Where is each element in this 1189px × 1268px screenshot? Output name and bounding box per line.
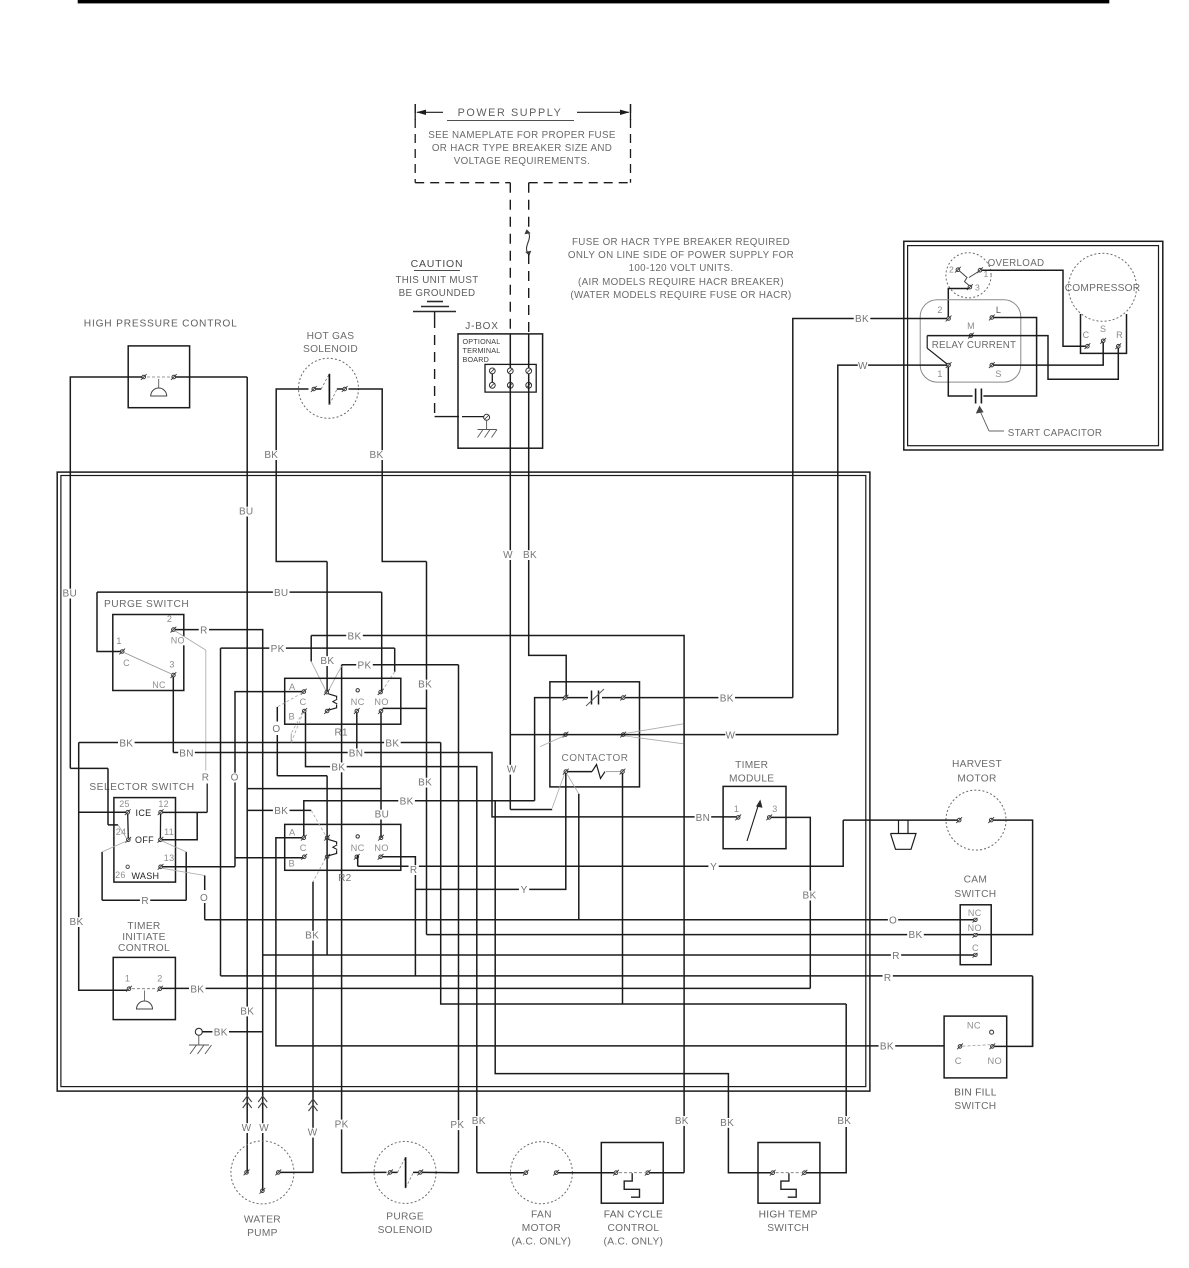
wire BK 426 drop — [427, 562, 974, 935]
R2 pin NO — [374, 835, 389, 860]
wire BK from j-box — [529, 472, 567, 697]
contactor mid contacts — [563, 732, 627, 738]
label BK armature drop — [319, 656, 336, 667]
wire BU bus — [97, 592, 382, 692]
svg-text:R: R — [1116, 330, 1123, 340]
cam pin C — [971, 943, 981, 958]
label START CAPACITOR — [1008, 428, 1103, 439]
bin fill pin C — [955, 1044, 963, 1067]
svg-text:100-120 VOLT UNITS.: 100-120 VOLT UNITS. — [629, 263, 734, 274]
wire relay L to capacitor — [983, 318, 1036, 397]
svg-text:BK: BK — [385, 738, 399, 749]
svg-text:BK: BK — [348, 632, 362, 643]
label OVERLOAD — [988, 258, 1045, 269]
svg-text:PURGE: PURGE — [386, 1212, 424, 1223]
leader W to coil — [552, 775, 564, 809]
svg-text:11: 11 — [164, 827, 174, 837]
svg-text:BN: BN — [696, 813, 711, 824]
wire hpc-left to pin24 — [70, 768, 126, 838]
svg-text:W: W — [242, 1123, 252, 1134]
wire R2 NC up — [357, 855, 359, 866]
wire PK to purge sol left — [329, 665, 342, 1173]
label PK row 665 — [356, 661, 373, 672]
svg-text:C: C — [123, 658, 130, 668]
label Y harvest — [708, 862, 718, 873]
label BN timer — [695, 813, 712, 824]
svg-text:MOTOR: MOTOR — [957, 774, 996, 785]
svg-text:CAUTION: CAUTION — [411, 258, 464, 270]
selector pin 11 — [158, 827, 175, 843]
label BK hot gas left — [263, 450, 280, 461]
wire purge sol left — [342, 1171, 387, 1173]
label BK fan — [470, 1116, 487, 1127]
leader contactor mid-right b — [625, 736, 684, 744]
harvest motor circle — [946, 790, 1006, 850]
purge pin 1 — [116, 636, 130, 668]
svg-text:TIMER: TIMER — [735, 760, 768, 771]
wire tic2 to timer module — [162, 987, 810, 989]
label PURGE SOLENOID — [378, 1212, 433, 1237]
wire PK row 665 — [342, 664, 459, 666]
label BK hightemp — [719, 1118, 736, 1129]
svg-text:R: R — [141, 896, 149, 907]
svg-text:R: R — [202, 773, 210, 784]
cam pin NO — [967, 923, 982, 938]
label PK1 — [333, 1119, 350, 1130]
svg-text:OFF: OFF — [135, 835, 154, 845]
label TIMER MODULE — [729, 760, 774, 785]
R2 armature contacts — [324, 835, 330, 860]
R1 pin C — [299, 697, 307, 714]
wire overload1 to compressor C — [982, 270, 1086, 346]
svg-text:M: M — [967, 321, 975, 331]
svg-text:FAN: FAN — [531, 1210, 552, 1221]
svg-text:OR HACR TYPE BREAKER SIZE AND: OR HACR TYPE BREAKER SIZE AND — [432, 143, 612, 154]
svg-text:NC: NC — [968, 908, 982, 918]
svg-text:PK: PK — [358, 661, 372, 672]
svg-text:S: S — [1100, 324, 1106, 334]
bin fill switch box — [944, 1016, 1007, 1078]
label FAN MOTOR — [512, 1210, 572, 1248]
wire hot gas left — [276, 389, 327, 562]
compressor unit outer box — [904, 241, 1163, 450]
fan cycle thermostat — [624, 1173, 639, 1197]
wire BK to R2 armature — [247, 809, 311, 811]
compressor circle — [1069, 253, 1137, 321]
R1 pin NC — [351, 689, 365, 714]
R1 pin NO — [374, 689, 389, 714]
svg-text:(WATER MODELS REQUIRE FUSE OR: (WATER MODELS REQUIRE FUSE OR HACR) — [570, 290, 791, 301]
label W3 — [307, 1128, 317, 1139]
svg-text:NO: NO — [988, 1056, 1003, 1066]
R1 armature — [328, 694, 337, 710]
label BK hpc drop — [239, 1006, 256, 1017]
purge blade — [124, 653, 172, 675]
label BK 743b — [384, 738, 401, 749]
svg-text:SWITCH: SWITCH — [954, 1101, 996, 1112]
relay pin 1 — [937, 362, 951, 379]
svg-text:WATER: WATER — [244, 1215, 281, 1226]
relay pin 2 — [937, 305, 951, 321]
svg-text:RELAY CURRENT: RELAY CURRENT — [932, 340, 1016, 351]
label BN b — [348, 748, 365, 759]
svg-text:S: S — [995, 369, 1001, 379]
hot gas solenoid circle — [299, 358, 359, 418]
wire L2 through j-box — [528, 334, 530, 472]
wire O from R1 A — [277, 707, 327, 955]
tic pin 2 — [157, 974, 163, 992]
svg-text:HIGH PRESSURE CONTROL: HIGH PRESSURE CONTROL — [84, 319, 238, 330]
relay armature — [927, 336, 947, 364]
relay pin S — [989, 362, 1002, 379]
svg-text:OPTIONAL: OPTIONAL — [463, 337, 501, 346]
wire R1 A left — [235, 692, 303, 867]
compressor unit inner box — [908, 246, 1159, 446]
relay R1 box — [285, 678, 401, 724]
cam pin NC — [967, 908, 982, 923]
svg-text:2: 2 — [167, 614, 172, 624]
svg-text:VOLTAGE REQUIREMENTS.: VOLTAGE REQUIREMENTS. — [454, 156, 591, 167]
wire contactor top left — [535, 698, 564, 801]
leader contactor mid-right a — [625, 724, 684, 734]
contactor top contact symbol — [568, 689, 622, 706]
terminal jumper — [491, 374, 493, 383]
svg-text:BK: BK — [331, 762, 345, 773]
svg-text:R: R — [410, 865, 418, 876]
svg-text:BN: BN — [349, 748, 364, 759]
wire R2 NO right — [221, 857, 1033, 1047]
svg-text:CONTROL: CONTROL — [607, 1223, 659, 1234]
label PK2 — [449, 1120, 466, 1131]
svg-text:12: 12 — [158, 799, 169, 809]
svg-text:R2: R2 — [338, 873, 352, 884]
power supply dimension arrows — [415, 104, 630, 120]
svg-text:BK: BK — [305, 931, 319, 942]
fan motor pins — [523, 1170, 559, 1176]
svg-text:BK: BK — [909, 930, 923, 941]
svg-text:BU: BU — [274, 588, 289, 599]
svg-text:BK: BK — [264, 450, 278, 461]
wire dashed ground to j-box — [435, 318, 459, 417]
label BK contactor — [718, 693, 735, 704]
R2 armature — [328, 839, 337, 855]
wire BN row — [173, 753, 736, 817]
purge solenoid coil — [387, 1157, 423, 1188]
svg-text:L: L — [996, 305, 1001, 315]
purge pin 2 — [167, 614, 186, 646]
svg-text:BOARD: BOARD — [463, 355, 490, 364]
wire contactor top to BK feed — [625, 697, 793, 699]
leader BK to R2 armature — [311, 810, 326, 836]
label BK cam — [907, 930, 924, 941]
fan cycle control box — [601, 1143, 663, 1204]
svg-text:SEE NAMEPLATE FOR PROPER FUSE: SEE NAMEPLATE FOR PROPER FUSE — [428, 130, 616, 141]
svg-text:SOLENOID: SOLENOID — [378, 1225, 433, 1236]
svg-text:26: 26 — [115, 870, 126, 880]
label WASH — [131, 871, 159, 881]
label J-BOX — [465, 321, 498, 332]
compressor terminal bracket — [1081, 314, 1127, 353]
relay pin M — [967, 321, 975, 339]
wire hot gas right — [349, 389, 427, 562]
wire BK branch 788 — [247, 788, 381, 790]
label W compressor feed — [858, 361, 868, 372]
wire pin13 right — [163, 866, 236, 868]
svg-text:BK: BK — [190, 984, 204, 995]
contactor top contacts — [563, 695, 627, 701]
wire BK compressor feed — [793, 319, 947, 698]
svg-text:NO: NO — [171, 636, 185, 646]
wire BK left drop — [79, 743, 128, 991]
chevron W3 — [309, 1099, 318, 1111]
wire W from j-box — [509, 472, 511, 734]
svg-text:CAM: CAM — [964, 875, 988, 886]
wire Y harvest row — [358, 820, 844, 866]
wire water pump right — [280, 1171, 313, 1173]
wire R2 arm to water pump — [312, 882, 314, 1173]
label W drop — [507, 765, 517, 776]
fuse break symbol — [525, 229, 532, 255]
cam switch box — [960, 905, 991, 965]
svg-text:C: C — [299, 697, 306, 707]
hot gas coil — [311, 374, 348, 405]
wire BK row 743 — [79, 742, 441, 744]
svg-text:BK: BK — [214, 1028, 228, 1039]
label CAUTION — [410, 258, 464, 271]
svg-text:CONTACTOR: CONTACTOR — [562, 753, 629, 764]
selector box — [114, 798, 176, 883]
label TIMER INITIATE CONTROL — [118, 921, 170, 954]
label BK hightemp2 — [836, 1116, 853, 1127]
wire PK drop 220 — [220, 648, 222, 976]
svg-text:PK: PK — [271, 644, 285, 655]
selector pin 12 — [158, 799, 169, 815]
wire R1 C to fan feeder — [306, 713, 477, 1173]
purge pin 3 — [152, 660, 176, 691]
svg-text:WASH: WASH — [131, 871, 159, 881]
label BU R1R2 — [374, 810, 391, 821]
label O cam — [888, 915, 898, 926]
wire L2 dashed upper — [528, 183, 530, 228]
svg-text:START CAPACITOR: START CAPACITOR — [1008, 428, 1103, 439]
svg-text:NO: NO — [374, 843, 389, 853]
contactor box — [550, 682, 640, 787]
svg-text:BU: BU — [375, 810, 390, 821]
wire R1 C drop — [290, 733, 292, 742]
wire PK to purge sol right — [458, 665, 460, 1173]
label WATER PUMP — [244, 1215, 281, 1240]
wire BK 743 drop 440 — [441, 743, 847, 1005]
svg-text:W: W — [507, 765, 517, 776]
label R R2NO — [409, 865, 419, 876]
svg-text:BK: BK — [855, 314, 869, 325]
label R1 B — [289, 712, 296, 722]
label R binfill — [883, 973, 893, 984]
terminal screws — [489, 368, 531, 388]
svg-text:POWER SUPPLY: POWER SUPPLY — [458, 107, 563, 119]
power supply note text — [428, 130, 616, 167]
wire L2 dashed lower — [528, 254, 530, 334]
earth ground symbol — [413, 302, 456, 319]
hpc contacts — [141, 374, 177, 380]
svg-text:W: W — [858, 361, 868, 372]
R2 pin A — [289, 828, 307, 841]
main enclosure inner — [61, 476, 866, 1087]
label BK tic2 — [189, 984, 206, 995]
svg-text:3: 3 — [169, 660, 174, 670]
label BK left drop — [68, 917, 85, 928]
label R drop — [200, 773, 210, 784]
svg-text:R: R — [892, 951, 900, 962]
label BN a — [178, 748, 195, 759]
svg-text:A: A — [289, 828, 296, 838]
leader R1 A — [277, 693, 302, 707]
svg-text:BIN FILL: BIN FILL — [954, 1088, 997, 1099]
fan motor circle — [510, 1142, 572, 1204]
harvest cam symbol — [891, 820, 917, 849]
svg-text:BK: BK — [370, 450, 384, 461]
wire high temp feeder — [495, 801, 771, 1173]
svg-text:BK: BK — [720, 1118, 734, 1129]
compressor pin R — [1115, 330, 1123, 349]
label R2 — [338, 873, 352, 884]
svg-text:R1: R1 — [335, 728, 349, 739]
svg-text:A: A — [289, 682, 296, 692]
svg-text:BK: BK — [119, 738, 133, 749]
label BK fan feeder — [330, 762, 347, 773]
label BIN FILL SWITCH — [954, 1088, 997, 1113]
harvest pins — [956, 817, 994, 823]
svg-text:Y: Y — [521, 885, 528, 896]
wire overload3 to relay2 — [948, 289, 968, 318]
svg-text:3: 3 — [772, 804, 777, 814]
label O 235 — [230, 773, 240, 784]
svg-text:CONTROL: CONTROL — [118, 943, 170, 954]
svg-text:2: 2 — [937, 305, 942, 315]
wire purge1 to BU — [97, 592, 121, 651]
wire purge sol right — [422, 1171, 458, 1173]
label W feed — [503, 550, 513, 561]
ground terminal circle — [195, 1028, 202, 1035]
wire ground to R wire — [202, 1031, 262, 1033]
power supply dashed box — [415, 104, 630, 183]
svg-text:R: R — [884, 973, 892, 984]
svg-text:O: O — [889, 915, 897, 926]
wire PK row 648 — [221, 647, 395, 649]
chevron W2 — [258, 1096, 267, 1108]
wire coil left drop — [415, 773, 565, 889]
label BU hpc drop — [62, 589, 79, 600]
j-box ground terminal — [462, 414, 490, 420]
svg-text:C: C — [972, 943, 979, 953]
wire W compressor feed — [838, 365, 947, 734]
label HARVEST MOTOR — [952, 759, 1002, 785]
svg-text:BK: BK — [880, 1042, 894, 1053]
svg-text:Y: Y — [710, 862, 717, 873]
contactor coil pins — [563, 769, 626, 775]
wire R1 NO down to R2 — [380, 713, 382, 838]
wire harvest left — [843, 819, 957, 821]
overload element — [960, 271, 979, 286]
label HIGH PRESSURE CONTROL — [84, 319, 238, 330]
svg-text:3: 3 — [975, 283, 980, 293]
hpc pressure dome — [151, 379, 167, 396]
svg-text:BK: BK — [675, 1116, 689, 1127]
svg-text:2: 2 — [157, 974, 162, 984]
wire L1 dashed from power supply — [509, 183, 511, 334]
R2 pin NC — [351, 835, 365, 860]
svg-text:OVERLOAD: OVERLOAD — [988, 258, 1045, 269]
label R1 — [335, 728, 349, 739]
svg-text:PK: PK — [450, 1120, 464, 1131]
svg-text:BK: BK — [274, 806, 288, 817]
label BK 743a — [118, 738, 135, 749]
svg-text:ONLY ON LINE SIDE OF POWER SUP: ONLY ON LINE SIDE OF POWER SUPPLY FOR — [568, 250, 794, 261]
svg-text:BK: BK — [320, 656, 334, 667]
label POWER SUPPLY — [447, 107, 574, 121]
overload protector circle — [946, 253, 991, 298]
wire fan motor right — [558, 1172, 614, 1174]
wire purge2 R right — [175, 630, 263, 1191]
overload pin 1 — [977, 267, 988, 279]
start capacitor — [976, 389, 982, 404]
label CONTACTOR — [562, 753, 629, 764]
label R purge2 — [199, 626, 209, 637]
label BK timer3 — [801, 891, 818, 902]
fuse note text — [568, 237, 794, 301]
svg-text:O: O — [200, 893, 208, 904]
label R cam — [891, 951, 901, 962]
start capacitor leader — [976, 406, 1004, 432]
svg-text:1: 1 — [116, 636, 121, 646]
svg-text:(AIR MODELS REQUIRE HACR BREAK: (AIR MODELS REQUIRE HACR BREAKER) — [578, 277, 784, 288]
label BK ground — [212, 1028, 229, 1039]
high temp thermostat — [781, 1173, 796, 1197]
svg-text:W: W — [503, 550, 513, 561]
svg-text:FUSE OR HACR TYPE BREAKER REQU: FUSE OR HACR TYPE BREAKER REQUIRED — [572, 237, 790, 248]
wire BK armature drop — [326, 562, 328, 693]
purge solenoid circle — [374, 1141, 436, 1203]
label OFF — [135, 835, 154, 845]
wire timer3 to TIC — [771, 817, 810, 988]
leader coil to 578 — [567, 775, 579, 794]
wire BK to bin fill C — [276, 838, 944, 1046]
svg-text:W: W — [259, 1123, 269, 1134]
svg-text:TIMER: TIMER — [127, 921, 160, 932]
wire hpc right drop — [246, 377, 248, 1173]
svg-text:HOT GAS: HOT GAS — [307, 331, 355, 342]
label BK hot gas right — [368, 450, 385, 461]
svg-text:ICE: ICE — [136, 808, 152, 818]
svg-text:PUMP: PUMP — [247, 1228, 278, 1239]
wire L1 through j-box — [509, 334, 511, 472]
svg-text:(A.C. ONLY): (A.C. ONLY) — [604, 1237, 664, 1248]
svg-text:TERMINAL: TERMINAL — [463, 346, 501, 355]
leader PK to R1 NO — [382, 672, 394, 691]
label SELECTOR SWITCH — [89, 782, 194, 793]
svg-text:O: O — [231, 773, 239, 784]
wire fan cycle right — [650, 1172, 684, 1174]
label R2 B — [289, 859, 296, 869]
tic dome — [137, 991, 153, 1010]
svg-text:BK: BK — [472, 1116, 486, 1127]
wire BK bin fill drop — [806, 1004, 846, 1173]
svg-text:MOTOR: MOTOR — [522, 1223, 561, 1234]
main enclosure outer — [57, 472, 870, 1091]
svg-text:COMPRESSOR: COMPRESSOR — [1065, 283, 1141, 294]
svg-text:THIS UNIT MUST: THIS UNIT MUST — [395, 275, 478, 286]
relay pin L — [989, 305, 1001, 320]
